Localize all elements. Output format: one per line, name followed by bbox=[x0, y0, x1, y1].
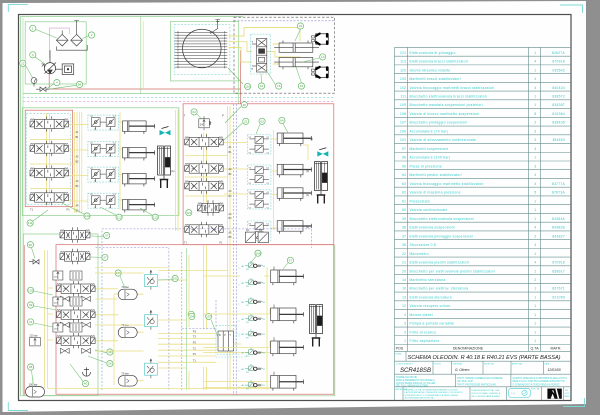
bracci lock valve pair 1 bbox=[88, 115, 119, 131]
svg-text:20: 20 bbox=[243, 103, 247, 107]
svg-text:GR. TOLL. MEDIA UNI 22768/1: GR. TOLL. MEDIA UNI 22768/1 bbox=[396, 384, 429, 387]
svg-text:111: 111 bbox=[28, 221, 33, 225]
svg-text:DISEGNAT.: DISEGNAT. bbox=[453, 362, 463, 365]
svg-text:113: 113 bbox=[153, 215, 158, 219]
long red pressure line bbox=[49, 51, 240, 105]
svg-text:82627A: 82627A bbox=[552, 51, 566, 55]
label circle 40 bbox=[82, 381, 88, 387]
svg-text:16: 16 bbox=[277, 84, 281, 88]
filter F1 diamond bbox=[56, 34, 68, 46]
accumulator 70bar 3 bbox=[118, 371, 137, 386]
svg-text:1: 1 bbox=[534, 94, 536, 98]
svg-text:1: 1 bbox=[534, 68, 536, 72]
svg-text:Blocchetto per elettrov. sterz: Blocchetto per elettrov. sterzatura bbox=[410, 287, 469, 291]
suspension red box bbox=[56, 245, 334, 395]
svg-text:84382B: 84382B bbox=[552, 226, 566, 230]
svg-text:838617: 838617 bbox=[552, 269, 565, 273]
svg-text:4: 4 bbox=[56, 81, 58, 85]
svg-text:DATA: DATA bbox=[545, 362, 550, 365]
svg-text:130: 130 bbox=[84, 214, 89, 218]
label circle 37 upper bbox=[104, 232, 110, 238]
svg-text:10: 10 bbox=[402, 287, 406, 291]
svg-text:384893: 384893 bbox=[552, 138, 565, 142]
svg-text:Elettrovalvola piedini stabili: Elettrovalvola piedini stabilizzatori bbox=[410, 261, 470, 265]
rotary joint green box bbox=[170, 21, 238, 81]
svg-text:4: 4 bbox=[404, 313, 406, 317]
suspension block valve 2 bbox=[242, 278, 266, 288]
label circle 112 bbox=[116, 214, 122, 220]
svg-text:4: 4 bbox=[534, 147, 536, 151]
svg-text:838572: 838572 bbox=[552, 94, 565, 98]
pilot valve 37 lower bbox=[60, 249, 90, 264]
rotary union 110 circle bbox=[183, 29, 222, 68]
suspension block valve 7 bbox=[242, 364, 266, 374]
svg-text:2: 2 bbox=[91, 33, 93, 37]
svg-text:22: 22 bbox=[21, 61, 25, 65]
corner crop mark top-right bbox=[560, 5, 583, 13]
piedini lock valves 4 bbox=[247, 221, 271, 241]
svg-text:CODICE DISEGNO: CODICE DISEGNO bbox=[396, 363, 413, 365]
svg-text:36: 36 bbox=[402, 243, 406, 247]
svg-text:1: 1 bbox=[534, 103, 536, 107]
svg-text:MATR.: MATR. bbox=[551, 347, 562, 351]
bracci valve 2 bbox=[30, 141, 69, 156]
svg-text:Pompa a portata variabile: Pompa a portata variabile bbox=[410, 322, 455, 326]
magenta pilot box around filters bbox=[50, 28, 70, 58]
suspension solenoid valve row1 bbox=[57, 281, 96, 296]
piedini cylinder 1 bbox=[277, 133, 311, 146]
svg-text:021059: 021059 bbox=[552, 295, 565, 299]
svg-text:102: 102 bbox=[28, 288, 33, 292]
svg-text:FOGLIO: FOGLIO bbox=[434, 363, 442, 365]
corner crop mark bottom-left bbox=[8, 402, 28, 411]
svg-text:P1: P1 bbox=[67, 208, 71, 212]
svg-text:101: 101 bbox=[173, 277, 178, 281]
svg-text:838387: 838387 bbox=[552, 103, 565, 107]
svg-text:97: 97 bbox=[402, 147, 406, 151]
throttle pair row3 bbox=[60, 348, 69, 353]
svg-text:87673A: 87673A bbox=[552, 191, 566, 195]
svg-text:1: 1 bbox=[32, 26, 34, 30]
label circle 98 bbox=[76, 81, 82, 87]
anchor symbol bbox=[83, 367, 91, 376]
svg-text:Martinetti bracci stabilizzato: Martinetti bracci stabilizzatori bbox=[410, 77, 461, 81]
corner crop mark top-left bbox=[8, 5, 28, 12]
suspension block valve 6 bbox=[242, 348, 266, 358]
svg-text:Blocchetto mandata sospensioni: Blocchetto mandata sospensioni posterior… bbox=[410, 103, 483, 107]
label circle 26 bbox=[107, 361, 113, 367]
svg-text:APPROVAZ.: APPROVAZ. bbox=[512, 362, 523, 365]
svg-text:4: 4 bbox=[534, 182, 536, 186]
label circle 1 bbox=[30, 25, 36, 31]
Merlo logo bbox=[547, 389, 561, 399]
pressure reducer 200bar row1 bbox=[53, 271, 63, 280]
damper box row1 bbox=[70, 271, 82, 280]
suspension block valve 3 bbox=[242, 297, 266, 307]
bracci cylinder 3 bbox=[123, 173, 155, 186]
bracci lock valve pair 4 bbox=[88, 193, 119, 209]
label circle 19 bottom bbox=[298, 83, 304, 89]
svg-text:Martinetto sterzatura: Martinetto sterzatura bbox=[410, 278, 446, 282]
throttle pair row2 bbox=[60, 322, 69, 327]
suspension block valve 1 bbox=[242, 261, 266, 271]
svg-text:8: 8 bbox=[534, 112, 536, 116]
suspension feed lines bbox=[186, 248, 188, 390]
svg-text:12: 12 bbox=[402, 304, 406, 308]
piedini valve 3 bbox=[185, 178, 224, 193]
svg-text:109: 109 bbox=[400, 103, 406, 107]
label circle 100 bbox=[188, 311, 194, 317]
bracci valve 1 bbox=[30, 116, 69, 131]
svg-text:21: 21 bbox=[402, 261, 406, 265]
label circle 90 bbox=[27, 242, 33, 248]
stabiliser leg cylinder B bbox=[315, 162, 328, 204]
electric dashed vertical 2 bbox=[181, 252, 183, 390]
long dashed magenta pilot line bbox=[23, 100, 335, 102]
stamp box bbox=[509, 388, 531, 397]
rear susp yellow wiring bbox=[203, 267, 270, 390]
svg-text:38: 38 bbox=[402, 226, 406, 230]
label circle 4 bbox=[54, 80, 60, 86]
cyan pilot dashed lines rear bbox=[216, 268, 246, 387]
label circle 107 bbox=[206, 313, 212, 319]
rear susp cylinder 2 bbox=[271, 308, 304, 323]
svg-text:97: 97 bbox=[289, 258, 293, 262]
company info cell 1 bbox=[396, 377, 436, 388]
label circle 101 bbox=[172, 275, 178, 281]
label circle 130 bbox=[84, 213, 90, 219]
svg-text:Valvola unidirezionale: Valvola unidirezionale bbox=[410, 208, 448, 212]
bracci valve 4 bbox=[30, 190, 69, 205]
svg-text:39: 39 bbox=[29, 303, 33, 307]
svg-text:O COMUNICATO A TERZI SENZA AUT: O COMUNICATO A TERZI SENZA AUTORIZZ. bbox=[513, 384, 561, 387]
rotary vent line bbox=[210, 20, 220, 34]
svg-text:3: 3 bbox=[534, 138, 536, 142]
svg-text:Giunto idraulico rotante: Giunto idraulico rotante bbox=[410, 68, 451, 72]
pilot solenoid valve 121 bbox=[198, 200, 224, 215]
svg-text:843827: 843827 bbox=[552, 234, 565, 238]
bottom row legal text bbox=[405, 388, 463, 399]
svg-text:C.Q.: C.Q. bbox=[511, 393, 516, 395]
svg-text:108: 108 bbox=[255, 251, 260, 255]
svg-text:NON TOCCARE, CANCELLA: NON TOCCARE, CANCELLA bbox=[472, 392, 501, 395]
svg-text:62: 62 bbox=[192, 110, 196, 114]
label circle 113 bbox=[152, 214, 158, 220]
svg-text:37: 37 bbox=[105, 234, 109, 238]
svg-text:Valvola di strozzamento unidir: Valvola di strozzamento unidirezionale bbox=[410, 138, 477, 142]
svg-text:110: 110 bbox=[400, 68, 406, 72]
suspension block valve 8 bbox=[242, 380, 266, 390]
svg-text:AUTORIZZAZIONE SCRITTA: AUTORIZZAZIONE SCRITTA bbox=[405, 397, 434, 400]
long dashed cyan drain line bbox=[23, 97, 335, 99]
suspension solenoid valve row2 bbox=[57, 307, 96, 322]
svg-text:1: 1 bbox=[534, 339, 536, 343]
label circle 13 bbox=[320, 54, 326, 60]
svg-text:Valvola recupero volum.: Valvola recupero volum. bbox=[410, 304, 452, 308]
pilot manifold BPT block bbox=[218, 331, 234, 351]
svg-text:64: 64 bbox=[402, 173, 406, 177]
svg-text:Accumulatore (70 bar): Accumulatore (70 bar) bbox=[410, 129, 449, 133]
svg-text:2: 2 bbox=[534, 278, 536, 282]
label circle 96 bbox=[28, 364, 34, 370]
svg-text:3: 3 bbox=[404, 322, 406, 326]
steering control valve bbox=[252, 38, 267, 72]
svg-text:Strozzatore 0.8: Strozzatore 0.8 bbox=[410, 243, 437, 247]
pilot valve 37 upper bbox=[60, 227, 90, 242]
filter F2 diamond bbox=[71, 34, 83, 46]
svg-text:41: 41 bbox=[29, 320, 33, 324]
svg-text:1: 1 bbox=[534, 287, 536, 291]
svg-text:Valvola bloccaggio martinetti: Valvola bloccaggio martinetti bracci sta… bbox=[410, 86, 495, 90]
svg-text:98: 98 bbox=[78, 83, 82, 87]
svg-text:2: 2 bbox=[404, 330, 406, 334]
svg-text:102: 102 bbox=[400, 86, 406, 90]
check valve box 2 bbox=[145, 311, 158, 330]
bracci lock valve pair 2 bbox=[88, 142, 119, 158]
piedini valve 5 bbox=[185, 222, 224, 237]
svg-text:112: 112 bbox=[117, 215, 122, 219]
piedini yellow wiring bbox=[158, 106, 308, 390]
svg-text:G. Olivero: G. Olivero bbox=[455, 368, 470, 372]
accumulator 70bar 2 bbox=[118, 323, 137, 338]
logo cell tiny text bbox=[565, 390, 573, 398]
svg-text:113: 113 bbox=[400, 60, 406, 64]
svg-text:106: 106 bbox=[400, 129, 406, 133]
svg-text:Valvola di blocco martinetto s: Valvola di blocco martinetto sospensioni bbox=[410, 112, 480, 116]
svg-text:37: 37 bbox=[402, 234, 406, 238]
svg-text:1: 1 bbox=[534, 304, 536, 308]
svg-text:RE O MODIFICARE A MANO: RE O MODIFICARE A MANO bbox=[472, 395, 501, 398]
bracci cylinder 1 bbox=[123, 121, 155, 134]
svg-text:70 bar: 70 bar bbox=[121, 371, 128, 375]
outer green enclosure bbox=[21, 17, 335, 396]
accumulator 70bar 1 bbox=[118, 285, 137, 300]
svg-text:121: 121 bbox=[400, 51, 406, 55]
label circle 22 bbox=[20, 60, 26, 66]
svg-text:NORME TECNICHE: NORME TECNICHE bbox=[396, 377, 417, 379]
svg-text:Motore diesel: Motore diesel bbox=[410, 313, 433, 317]
svg-text:84384A: 84384A bbox=[552, 217, 566, 221]
svg-text:1: 1 bbox=[534, 51, 536, 55]
svg-text:P: P bbox=[222, 114, 224, 118]
svg-text:(2): (2) bbox=[310, 137, 313, 141]
svg-text:Martinetti sospensione: Martinetti sospensione bbox=[410, 147, 449, 151]
check valve box 1 bbox=[145, 270, 158, 289]
svg-text:(1): (1) bbox=[306, 193, 309, 197]
svg-text:20: 20 bbox=[402, 269, 406, 273]
svg-text:1: 1 bbox=[534, 156, 536, 160]
svg-text:DISEGNI ESEGUITI AL CAD: DISEGNI ESEGUITI AL CAD bbox=[472, 389, 501, 392]
label circle 37 lower bbox=[102, 254, 108, 260]
svg-text:10: 10 bbox=[260, 84, 264, 88]
svg-text:838435: 838435 bbox=[552, 121, 565, 125]
corner crop mark bottom-right bbox=[563, 398, 585, 407]
svg-text:22: 22 bbox=[402, 252, 406, 256]
manometer gauge bbox=[31, 78, 37, 87]
svg-text:035542: 035542 bbox=[552, 68, 565, 72]
svg-text:1: 1 bbox=[534, 199, 536, 203]
bracci lock valve pair 3 bbox=[88, 167, 119, 183]
label circle 64 bbox=[279, 117, 285, 123]
svg-text:LA MERLO S.P.A. SI RISERVA A T: LA MERLO S.P.A. SI RISERVA A TERMINE DI … bbox=[405, 388, 459, 391]
svg-text:1: 1 bbox=[534, 330, 536, 334]
svg-text:SCR418SB: SCR418SB bbox=[400, 367, 431, 374]
teal hose marker 2 bbox=[317, 148, 328, 157]
suspension electric dashed box bbox=[96, 248, 169, 391]
svg-text:DENOMINAZIONE: DENOMINAZIONE bbox=[453, 347, 484, 351]
svg-text:1: 1 bbox=[534, 295, 536, 299]
title row small labels bbox=[396, 354, 550, 366]
label circle 20 bbox=[241, 102, 247, 108]
steering cylinder 2 bbox=[274, 58, 319, 70]
stabiliser leg cylinder A bbox=[158, 146, 171, 188]
svg-text:870918: 870918 bbox=[552, 261, 565, 265]
label circle 111 bbox=[27, 220, 33, 226]
rear susp cylinder stubs bbox=[273, 267, 275, 376]
svg-text:MERLO S.P.A. NON PUO ESSERE RI: MERLO S.P.A. NON PUO ESSERE RIPRODOTTO bbox=[513, 380, 565, 383]
bracci group red box bbox=[25, 110, 72, 207]
svg-text:83777A: 83777A bbox=[552, 182, 566, 186]
svg-text:TEL.: TEL. bbox=[565, 390, 570, 392]
svg-text:107: 107 bbox=[206, 315, 211, 319]
svg-text:121: 121 bbox=[186, 211, 191, 215]
steering group black dashed box bbox=[234, 17, 334, 93]
svg-text:4: 4 bbox=[534, 173, 536, 177]
svg-text:(4): (4) bbox=[306, 225, 309, 229]
svg-text:90: 90 bbox=[29, 243, 33, 247]
filter outlet bracket bbox=[57, 45, 88, 50]
svg-text:19: 19 bbox=[300, 84, 304, 88]
steering blue dashed electric line bbox=[234, 20, 334, 22]
suspension block valve 5 bbox=[242, 329, 266, 339]
suspension line to accumulator bbox=[32, 378, 34, 387]
label circle 19 top bbox=[297, 23, 303, 29]
svg-text:DATE E RIFERIMENTI SUI MODELLI: DATE E RIFERIMENTI SUI MODELLI bbox=[396, 379, 435, 382]
svg-text:Valvola di massima pressione: Valvola di massima pressione bbox=[410, 191, 461, 195]
svg-text:827671: 827671 bbox=[552, 287, 565, 291]
company info cell 3 bbox=[513, 377, 568, 387]
svg-text:POS. TA: POS. TA bbox=[531, 388, 540, 391]
suspension left red line bbox=[24, 245, 26, 395]
rear susp cylinder 1 bbox=[271, 270, 304, 285]
svg-text:P1: P1 bbox=[193, 352, 197, 356]
shut-off valve bbox=[36, 87, 49, 91]
label circle 16 bbox=[276, 83, 282, 89]
svg-text:NOME: NOME bbox=[396, 354, 402, 356]
svg-text:60: 60 bbox=[402, 208, 406, 212]
label circle 10 bbox=[258, 83, 264, 89]
bottom row cell approv bbox=[396, 388, 409, 391]
test point valve 90 bbox=[29, 260, 39, 265]
svg-text:P2: P2 bbox=[193, 340, 197, 344]
pilot block 107 dashed box bbox=[216, 325, 236, 354]
svg-text:(A): (A) bbox=[171, 169, 175, 173]
svg-text:2: 2 bbox=[534, 121, 536, 125]
svg-text:Martinetti piedini stabilizzat: Martinetti piedini stabilizzatori bbox=[410, 173, 462, 177]
rear susp cylinder 3 bbox=[271, 341, 304, 356]
piedini valve 2 bbox=[185, 161, 224, 176]
svg-text:63: 63 bbox=[260, 119, 264, 123]
svg-text:13: 13 bbox=[402, 295, 406, 299]
svg-text:5: 5 bbox=[534, 191, 536, 195]
svg-text:39: 39 bbox=[402, 217, 406, 221]
svg-text:61: 61 bbox=[402, 199, 406, 203]
rotary joint cyan dashed box bbox=[174, 25, 230, 75]
svg-text:1: 1 bbox=[404, 339, 406, 343]
svg-text:4: 4 bbox=[534, 86, 536, 90]
svg-text:240: 240 bbox=[200, 124, 205, 127]
svg-text:111: 111 bbox=[400, 94, 406, 98]
svg-text:Valvola bloccaggio martinetto: Valvola bloccaggio martinetto stabilizza… bbox=[410, 182, 484, 186]
svg-text:Filtro aspirazione: Filtro aspirazione bbox=[410, 339, 440, 343]
suspension block valve 4 bbox=[242, 314, 266, 324]
rotary union line bundle bbox=[175, 31, 228, 68]
svg-text:Presa di pressione: Presa di pressione bbox=[410, 164, 442, 168]
svg-text:Manometro: Manometro bbox=[410, 252, 429, 256]
svg-text:QUESTO DISEGNO E DI PROPRIETA: QUESTO DISEGNO E DI PROPRIETA DELLA DITT… bbox=[513, 377, 568, 380]
svg-text:107: 107 bbox=[400, 121, 406, 125]
svg-text:VERIFICAT.: VERIFICAT. bbox=[484, 362, 495, 365]
teal hose marker 1 bbox=[160, 127, 171, 136]
piedini lock valves 3 bbox=[247, 190, 271, 210]
svg-text:3: 3 bbox=[534, 164, 536, 168]
svg-text:104: 104 bbox=[189, 315, 194, 319]
svg-text:MERLO: MERLO bbox=[565, 396, 573, 398]
svg-text:210 bar: 210 bar bbox=[30, 334, 38, 337]
label circle 3 bbox=[30, 52, 36, 58]
bracci group green box bbox=[22, 108, 179, 216]
svg-text:70 bar: 70 bar bbox=[121, 285, 128, 289]
svg-text:12/01/00: 12/01/00 bbox=[548, 368, 561, 372]
check valve box 3 bbox=[145, 359, 158, 378]
piedini blue dashed electric bus bbox=[234, 104, 237, 395]
svg-text:108: 108 bbox=[400, 112, 406, 116]
piedini cylinder 3 bbox=[277, 188, 311, 201]
svg-text:4: 4 bbox=[534, 261, 536, 265]
bracci cylinder 4 bbox=[123, 199, 155, 212]
svg-text:101: 101 bbox=[400, 138, 406, 142]
label circle 102 bbox=[28, 287, 34, 293]
svg-text:14: 14 bbox=[402, 278, 406, 282]
svg-text:P3: P3 bbox=[193, 330, 197, 334]
pressure reducer 200bar row3 bbox=[53, 323, 63, 332]
svg-text:103: 103 bbox=[400, 77, 406, 81]
label circle 110 leader bbox=[228, 68, 243, 84]
svg-text:Blocchetto per elettrovalvole: Blocchetto per elettrovalvole piedini st… bbox=[410, 269, 495, 273]
svg-text:1: 1 bbox=[534, 217, 536, 221]
svg-text:Elettrovalvola bracci stabiliz: Elettrovalvola bracci stabilizzatori bbox=[410, 60, 469, 64]
svg-text:Elettrovalvola pilotaggio sosp: Elettrovalvola pilotaggio sospensioni bbox=[410, 234, 474, 238]
bracci yellow bus bbox=[30, 110, 178, 231]
pump group green box bbox=[25, 22, 86, 84]
suspension solenoid valve row3 bbox=[57, 333, 96, 348]
svg-text:110: 110 bbox=[245, 85, 250, 89]
svg-text:1: 1 bbox=[534, 313, 536, 317]
piedini group red box bbox=[183, 104, 334, 245]
svg-text:40: 40 bbox=[84, 382, 88, 386]
svg-text:13: 13 bbox=[321, 55, 325, 59]
svg-text:GR. RUG. SUP.: GR. RUG. SUP. bbox=[457, 381, 474, 383]
inner green line left bbox=[22, 18, 24, 395]
variable displacement pump bbox=[42, 50, 57, 74]
svg-text:26: 26 bbox=[108, 362, 112, 366]
svg-text:Elettrovalvola sospensioni: Elettrovalvola sospensioni bbox=[410, 226, 455, 230]
rear tire symbol bbox=[312, 67, 329, 78]
suspension yellow wiring left bbox=[45, 250, 187, 388]
label circle 41 bbox=[28, 319, 34, 325]
svg-text:Blocchetto pilotaggio sospensi: Blocchetto pilotaggio sospensioni bbox=[410, 121, 468, 125]
svg-text:Filtro di scarico: Filtro di scarico bbox=[410, 330, 437, 334]
